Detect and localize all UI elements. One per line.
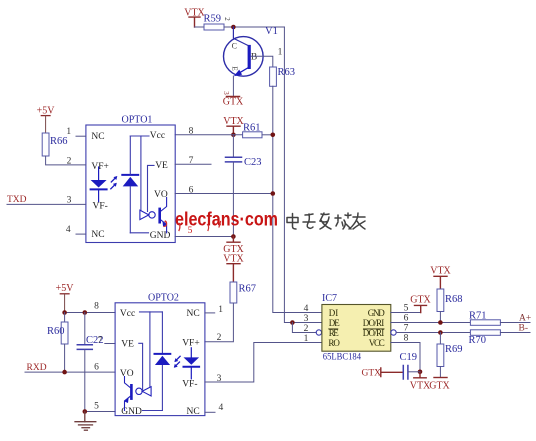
svg-text:VO: VO xyxy=(120,369,134,379)
IC U7 65LBC184 box xyxy=(322,305,391,352)
svg-text:+5V: +5V xyxy=(56,283,75,294)
OPTO2 inner texts xyxy=(120,309,200,417)
OPTO1 LED xyxy=(98,167,100,180)
svg-text:R60: R60 xyxy=(47,326,65,337)
OPTO2 pin5 row wire xyxy=(85,411,115,413)
OPTO1 pin6 wire to node xyxy=(175,193,273,195)
svg-text:6: 6 xyxy=(94,363,99,373)
svg-text:DE: DE xyxy=(329,318,341,328)
svg-text:65LBC184: 65LBC184 xyxy=(323,352,362,362)
svg-text:GTX: GTX xyxy=(429,381,450,392)
svg-text:NC: NC xyxy=(187,309,200,319)
svg-text:GTX: GTX xyxy=(362,369,382,379)
OPTO1 inner rails xyxy=(129,136,131,233)
watermark chinese 电子发烧友 xyxy=(287,213,365,229)
svg-text:1: 1 xyxy=(66,127,71,137)
watermark elecfans.com xyxy=(166,210,279,231)
svg-text:Vcc: Vcc xyxy=(150,131,165,141)
wire pin8 row xyxy=(175,134,242,136)
svg-text:C19: C19 xyxy=(400,352,418,363)
svg-text:NC: NC xyxy=(91,132,104,142)
OPTO2 LED xyxy=(190,348,192,358)
capacitor C22 xyxy=(84,313,86,345)
svg-text:DI: DI xyxy=(329,308,339,318)
svg-text:+5V: +5V xyxy=(37,106,56,117)
svg-text:RO: RO xyxy=(328,338,340,348)
svg-text:R59: R59 xyxy=(204,14,222,25)
OPTO1 photodiode xyxy=(122,174,138,176)
svg-text:R61: R61 xyxy=(243,123,261,134)
svg-text:2: 2 xyxy=(223,17,231,21)
svg-text:VCC: VCC xyxy=(369,338,385,348)
resistor R59 xyxy=(204,24,224,30)
power GTX below V1 xyxy=(227,96,240,98)
OPTO2 VE wire xyxy=(139,343,143,389)
node R61/R63 xyxy=(271,133,276,138)
svg-text:8: 8 xyxy=(189,127,194,137)
svg-text:Vcc: Vcc xyxy=(120,309,135,319)
resistor R70 xyxy=(470,330,500,336)
svg-text:R67: R67 xyxy=(239,284,257,295)
wire OPTO2 pin3 to RO xyxy=(205,343,322,383)
emitter wire down to GTX xyxy=(232,76,234,96)
svg-text:OPTO2: OPTO2 xyxy=(148,293,179,304)
svg-text:4: 4 xyxy=(66,225,71,235)
power GTX below node xyxy=(227,237,240,243)
svg-text:VF-: VF- xyxy=(182,380,197,390)
svg-text:R66: R66 xyxy=(50,136,68,147)
svg-text:VTX: VTX xyxy=(223,116,244,127)
OPTO1 pin 4 stub xyxy=(76,233,86,235)
svg-text:R63: R63 xyxy=(278,67,296,78)
RE-side bubble pin7 xyxy=(391,330,396,335)
wire R66 to OPTO1 pin2 xyxy=(46,156,86,165)
svg-text:VTX: VTX xyxy=(223,254,244,265)
svg-text:GTX: GTX xyxy=(223,97,244,108)
pin7 wire xyxy=(396,332,470,334)
svg-text:DO/RI: DO/RI xyxy=(363,318,385,328)
svg-text:4: 4 xyxy=(304,304,309,314)
OPTO2 inner rails xyxy=(140,311,163,313)
base wire to R63 xyxy=(251,56,273,67)
svg-text:OPTO1: OPTO1 xyxy=(122,115,153,126)
OPTO2 inverter + bubble xyxy=(142,387,151,396)
node junction R59/V1 xyxy=(231,25,236,30)
svg-text:B: B xyxy=(251,53,257,63)
svg-text:A+: A+ xyxy=(519,314,531,324)
svg-text:IC7: IC7 xyxy=(322,293,337,304)
svg-text:V1: V1 xyxy=(265,26,278,37)
node GND/C23 xyxy=(231,234,236,239)
svg-text:GND: GND xyxy=(150,231,171,241)
svg-text:7: 7 xyxy=(98,336,103,346)
svg-text:RE: RE xyxy=(329,328,340,338)
svg-text:1: 1 xyxy=(218,305,223,315)
resistor R68 xyxy=(437,289,444,312)
wire R67 to OPTO2 pin2 xyxy=(205,303,234,342)
power VTX below node xyxy=(414,372,426,378)
svg-text:VF-: VF- xyxy=(93,202,108,212)
OPTO1 pin5 wire xyxy=(175,236,233,238)
resistor R66 xyxy=(42,133,49,156)
svg-text:DO/RI: DO/RI xyxy=(363,328,385,338)
svg-text:R68: R68 xyxy=(445,294,463,305)
OPTO1 pin7 stub xyxy=(175,163,211,165)
pin5 GND wire + power GTX xyxy=(391,312,421,314)
svg-text:VO: VO xyxy=(154,190,168,200)
svg-text:VE: VE xyxy=(155,161,168,171)
svg-text:1: 1 xyxy=(278,48,283,58)
OPTO2 output transistor xyxy=(130,384,133,400)
svg-text:4: 4 xyxy=(219,403,224,413)
svg-text:7: 7 xyxy=(404,323,409,333)
svg-text:C: C xyxy=(232,42,237,51)
svg-text:2: 2 xyxy=(67,157,72,167)
wire DE node to RE xyxy=(292,323,316,333)
svg-text:1: 1 xyxy=(304,334,309,344)
svg-text:VTX: VTX xyxy=(430,266,451,277)
OPTO2 light arrows xyxy=(175,356,180,366)
svg-text:VE: VE xyxy=(121,340,134,350)
resistor R63 xyxy=(270,67,277,86)
svg-text:E: E xyxy=(231,66,240,71)
svg-text:R70: R70 xyxy=(469,335,487,346)
svg-text:GND: GND xyxy=(368,308,386,318)
svg-text:NC: NC xyxy=(91,230,104,240)
svg-text:3: 3 xyxy=(67,195,72,205)
pin6 wire xyxy=(391,322,471,324)
wire R63 down to DI (long vertical left) xyxy=(273,86,322,312)
svg-text:8: 8 xyxy=(94,302,99,312)
svg-text:VF+: VF+ xyxy=(182,339,200,349)
svg-text:TXD: TXD xyxy=(7,195,27,205)
svg-text:VTX: VTX xyxy=(410,381,431,392)
svg-text:R69: R69 xyxy=(445,344,463,355)
resistor R60 xyxy=(64,313,66,323)
svg-text:3: 3 xyxy=(304,314,309,324)
pin8 VCC wire down xyxy=(391,343,420,372)
wire node down to DE (long vertical right) xyxy=(284,27,322,323)
OPTO1 pin 1 stub xyxy=(76,135,86,137)
resistor R67 xyxy=(230,282,237,303)
svg-text:elecfans·com: elecfans·com xyxy=(175,210,278,231)
OPTO1 VE wire xyxy=(148,165,155,211)
svg-text:NC: NC xyxy=(187,407,200,417)
ground symbol xyxy=(75,412,96,431)
OPTO2 pin8 row wire xyxy=(65,312,116,314)
resistor R61 xyxy=(243,132,262,138)
svg-text:2: 2 xyxy=(304,324,309,334)
svg-text:2: 2 xyxy=(217,333,222,343)
svg-text:GTX: GTX xyxy=(410,295,431,306)
svg-text:VF+: VF+ xyxy=(91,162,109,172)
OPTO2 pin7 stub xyxy=(105,343,115,345)
watermark red artifact near OPTO1 xyxy=(164,222,167,227)
capacitor C23 xyxy=(232,135,234,157)
OPTO1 inverter + bubble xyxy=(140,210,149,219)
power VTX top-left xyxy=(184,8,205,19)
OPTO1 inner texts xyxy=(91,131,170,241)
OPTO2 right pin stubs xyxy=(205,312,215,314)
OPTO2 photodiode xyxy=(155,353,171,355)
resistor R69 xyxy=(439,333,441,345)
svg-text:3: 3 xyxy=(222,91,230,95)
wire R59 to node and to V1 collector branch xyxy=(224,26,284,28)
RE bubble xyxy=(316,330,321,335)
node VO/R63 net xyxy=(271,191,276,196)
node DE/RE branch xyxy=(290,320,295,325)
power GTX below R69 xyxy=(434,377,447,379)
wire VTX to R59 xyxy=(195,26,205,28)
OPTO1 output transistor xyxy=(158,208,161,224)
OPTO1 light arrows xyxy=(111,177,116,189)
node VTX/R61/pin8 xyxy=(231,133,236,138)
svg-text:5: 5 xyxy=(94,402,99,412)
svg-text:C23: C23 xyxy=(244,157,262,168)
svg-text:B-: B- xyxy=(519,323,529,333)
